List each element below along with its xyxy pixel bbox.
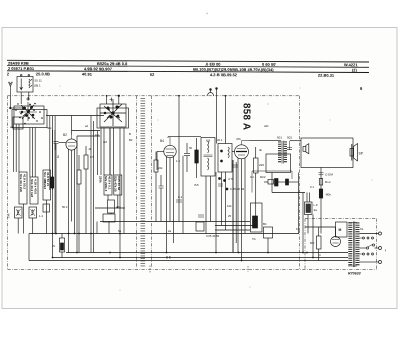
S2 outer frame [97, 108, 129, 128]
svg-text:6.3: 6.3 [296, 227, 300, 231]
svg-text:858 A: 858 A [241, 103, 252, 130]
gang tuning screen line left [136, 96, 138, 268]
S1 trimmer sub-box [13, 117, 23, 129]
output transformer T2 [250, 141, 286, 164]
svg-text:RU: RU [310, 241, 314, 245]
gang tuning screen line right [151, 96, 153, 268]
svg-text:14k: 14k [7, 213, 11, 218]
grid leak R4a [154, 152, 158, 222]
svg-text:0.05 40 82: 0.05 40 82 [230, 187, 245, 191]
wire speaker return [320, 168, 322, 234]
tuning gang mechanical link (hatched band) [141, 98, 146, 267]
power wiring horizontals [305, 226, 336, 228]
svg-text:0.05 40 82: 0.05 40 82 [117, 176, 121, 191]
capacitor C7 (tone) [287, 148, 292, 150]
wire C2 down [55, 144, 57, 234]
svg-text:SP.: SP. [359, 152, 364, 156]
svg-text:40.91: 40.91 [82, 72, 93, 77]
dash stubs at bottom boundary [150, 266, 248, 273]
padder cap C1c [43, 204, 50, 212]
svg-text:0.05 40 82: 0.05 40 82 [206, 234, 220, 238]
loudspeaker enclosure [301, 138, 353, 168]
padder cap C1a [15, 207, 23, 218]
svg-text:0.1: 0.1 [310, 185, 314, 189]
capacitor C5a [159, 175, 164, 222]
wire antenna down [9, 96, 11, 108]
svg-text:25: 25 [228, 214, 232, 218]
svg-text:47k: 47k [116, 205, 121, 209]
RF coil bank wires down [13, 116, 55, 190]
wire y225 [215, 225, 256, 227]
svg-text:0.1: 0.1 [178, 195, 183, 199]
junction dots top rail [106, 95, 227, 97]
svg-text:S2b 47k 25: S2b 47k 25 [114, 176, 118, 192]
speaker SP2 (output) [350, 144, 358, 162]
svg-text:B2: B2 [129, 138, 133, 142]
grid stopper marks [232, 165, 238, 167]
svg-text:L.F: L.F [314, 203, 319, 207]
wire osc box verticals [97, 131, 99, 176]
svg-text:47k: 47k [236, 137, 241, 141]
svg-text:C-DM: C-DM [325, 173, 333, 177]
capacitor C-DM [319, 173, 324, 175]
svg-text:220: 220 [259, 163, 264, 167]
heavy wire pair mid [232, 160, 234, 253]
svg-text:R70633: R70633 [348, 272, 361, 276]
wire IF1 secondary down [210, 176, 212, 222]
svg-text:220k: 220k [99, 176, 103, 183]
mains switch contacts [366, 247, 368, 249]
wires right section verticals [306, 193, 308, 203]
tube V3 (output pentode) [232, 141, 281, 261]
svg-text:41.8 k 50.2: 41.8 k 50.2 [22, 174, 26, 189]
tube V2 (mixer/oscillator) [157, 137, 176, 222]
node top osc [118, 95, 120, 97]
speaker SP1 (small) [303, 144, 309, 154]
resistor RU [317, 227, 322, 261]
svg-text:S1a 40.1 2x8: S1a 40.1 2x8 [19, 174, 23, 192]
svg-text:B 5: B 5 [166, 256, 171, 260]
osc coil L5 [114, 175, 122, 195]
svg-text:S2a 220k 4: S2a 220k 4 [104, 176, 108, 192]
svg-text:M: M [339, 228, 342, 232]
scan specks [60, 13, 373, 291]
capacitor C4 [103, 214, 115, 234]
switch contact dots [15, 103, 43, 125]
svg-text:50: 50 [189, 146, 193, 150]
AVC bus wire [29, 233, 299, 235]
svg-text:50 11: 50 11 [35, 79, 43, 83]
wire T0 secondary down [28, 92, 30, 100]
wire to band switch S1 [10, 107, 26, 109]
coupling caps cluster [218, 178, 228, 191]
rectifier tube V4 [331, 227, 341, 247]
mains voltage selector contacts [363, 237, 374, 255]
mains terminal 1 [379, 232, 382, 235]
wire pair down left of osc [90, 116, 92, 253]
svg-text:50k: 50k [47, 126, 52, 130]
svg-text:0 60 00': 0 60 00' [262, 62, 276, 67]
svg-text:~: ~ [383, 249, 388, 252]
T2 screening box [266, 154, 291, 173]
svg-text:R22: R22 [260, 175, 266, 179]
wire plate V1 to osc area [72, 130, 101, 132]
svg-text:4.18 k 40.5: 4.18 k 40.5 [33, 179, 37, 194]
svg-text:a31: a31 [264, 124, 269, 128]
svg-text:6.8: 6.8 [206, 139, 211, 143]
wire AF line [272, 192, 305, 194]
field choke LF [305, 202, 313, 234]
S1 wafer outline [14, 106, 44, 124]
IF coupling box [218, 144, 232, 173]
svg-text:0.1: 0.1 [250, 175, 254, 179]
IF transformer T1 [201, 138, 215, 234]
wire V2 plate to IF1 [168, 136, 201, 138]
svg-text:20.1: 20.1 [217, 138, 223, 142]
component value labels (scattered) [10, 124, 364, 257]
RF coil L3 (wave band contacts) [43, 170, 51, 200]
svg-text:B: B [129, 132, 131, 136]
wire screen supply [225, 96, 227, 144]
detector screen box [252, 171, 292, 193]
IF amp area small caps [176, 200, 204, 231]
resistor R1 (vertical, dark) [50, 177, 53, 188]
HT bus 3 [29, 260, 348, 262]
resistor R4 [195, 138, 199, 178]
svg-text:[B] 1: [B] 1 [35, 84, 42, 88]
trimmer C3 [110, 98, 114, 102]
S2 wafer outline [100, 104, 126, 127]
tube V1 (RF amp) [59, 116, 78, 234]
junction dots on AVC bus [52, 233, 121, 235]
svg-text:22.B0.31: 22.B0.31 [318, 73, 335, 78]
parts table row 1 text [8, 61, 359, 68]
wire HT feed IF1 [178, 96, 180, 222]
parts table row 2 text [8, 66, 358, 73]
padder cap C1b [29, 207, 37, 218]
antenna input transformer T0 [17, 77, 33, 93]
band switch S1 (rotary, RF) [19, 102, 37, 121]
S1 outer frame [12, 110, 47, 128]
svg-text:40.8 k 0.1: 40.8 k 0.1 [107, 176, 111, 190]
wire L4 to R3 [108, 195, 118, 214]
svg-text:0.1: 0.1 [95, 133, 99, 137]
mains terminal 3 [379, 261, 382, 264]
antenna A1 [8, 82, 12, 96]
wire T0 primary down [20, 92, 22, 104]
resistor R5 [254, 147, 259, 226]
svg-text:502: 502 [287, 136, 292, 140]
resistor R2a (vertical) [84, 146, 88, 222]
chassis boundary (dash-dot), power unit [305, 218, 377, 220]
wire T2 to speaker [290, 140, 301, 142]
selector feed wires [360, 238, 363, 254]
parts table row 3 text [7, 71, 335, 78]
svg-text:1.4: 1.4 [39, 214, 43, 218]
svg-text:B4: B4 [160, 139, 164, 143]
svg-text:.6 EB 00: .6 EB 00 [205, 62, 221, 67]
wire y230 [215, 229, 250, 231]
wire grid top osc [106, 96, 108, 104]
RF coil L2 (wave band contacts) [30, 177, 38, 204]
chassis boundary (dash-dot), main receiver [8, 96, 377, 269]
svg-text:TA: TA [252, 237, 256, 241]
svg-text:W.42Z1: W.42Z1 [344, 62, 359, 67]
svg-text:B2: B2 [63, 133, 67, 137]
osc coil L4 [104, 175, 112, 195]
node at jump [210, 89, 212, 91]
svg-text:4 7k: 4 7k [228, 177, 234, 181]
wire pair left of V1 [52, 130, 54, 234]
cathode bias resistor R6 [251, 203, 263, 232]
svg-text:S1: S1 [360, 227, 364, 231]
node: antenna to coil bank [10, 107, 12, 109]
RF coil L1 (wave band contacts) [19, 172, 27, 204]
wire IF2 down [221, 172, 223, 226]
resistor R7 (bias) [60, 234, 65, 258]
svg-text:22k: 22k [158, 166, 163, 170]
svg-text:a2: a2 [85, 124, 89, 128]
wire down from jump [216, 89, 218, 144]
T0 terminal dots [20, 74, 22, 76]
wire T2 return [271, 173, 273, 178]
wire S1 to osc switch [46, 115, 104, 117]
mains terminal 2 [379, 247, 382, 250]
svg-text:2 05671 P.B01: 2 05671 P.B01 [8, 66, 35, 71]
resistor 80k (dark) [319, 189, 322, 198]
trimmer C1 [26, 97, 30, 101]
svg-text:(2): (2) [352, 68, 358, 73]
svg-text:4.2-B 0B.09.52: 4.2-B 0B.09.52 [210, 72, 238, 77]
capacitor C2 (grid) [54, 141, 59, 143]
junction dots on buses [52, 252, 314, 262]
svg-text:0.5: 0.5 [90, 155, 94, 159]
wire osc row [95, 207, 125, 209]
box M (mains filter) [336, 222, 348, 237]
svg-text:S1b 40.2 1x8: S1b 40.2 1x8 [30, 179, 34, 197]
svg-text:10k: 10k [227, 204, 232, 208]
capacitor C6 [264, 227, 273, 253]
svg-text:4a: 4a [314, 208, 318, 212]
HT bus 2 [53, 257, 348, 259]
resistor Rdm [319, 179, 322, 186]
svg-text:50.2: 50.2 [62, 205, 68, 209]
resistor R22 [264, 179, 299, 187]
svg-text:5a: 5a [118, 229, 122, 233]
svg-text:1M: 1M [103, 140, 108, 144]
svg-text:B4: B4 [263, 222, 267, 226]
svg-text:-80k: -80k [325, 193, 331, 197]
wire jump over chassis [208, 92, 214, 95]
HT bus 1 [66, 252, 348, 254]
wires verticals into buses [52, 234, 54, 258]
svg-text:1.5: 1.5 [176, 159, 180, 163]
power unit: transformer TR (mains) [348, 222, 357, 268]
svg-text:2a: 2a [168, 229, 172, 233]
resistor R2 (vertical) [77, 155, 81, 234]
svg-text:a1: a1 [10, 125, 14, 129]
band switch S2 (rotary, oscillator) [100, 100, 126, 126]
capacitor C5 [184, 143, 190, 172]
wire bottom of coils [17, 218, 19, 234]
svg-text:25.0.0B: 25.0.0B [36, 71, 50, 76]
svg-text:501: 501 [277, 136, 282, 140]
parts list table rules [7, 60, 369, 78]
svg-text:1W: 1W [43, 179, 47, 184]
svg-text:7k5: 7k5 [194, 183, 199, 187]
osc coil wires down [100, 128, 102, 175]
resistor R3 [108, 200, 115, 213]
